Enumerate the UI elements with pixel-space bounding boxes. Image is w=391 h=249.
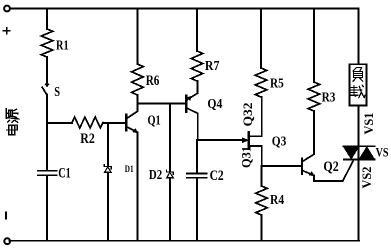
svg-text:Q31: Q31: [239, 146, 253, 168]
svg-text:R5: R5: [270, 77, 284, 92]
svg-text:Q4: Q4: [207, 97, 222, 112]
svg-text:VS2: VS2: [360, 167, 374, 189]
terminal bottom-left: [4, 238, 10, 244]
wire Q4 collector to node B: [197, 113, 199, 140]
wire bottom rail: [10, 240, 360, 242]
wire R6 to Q1 collector node: [136, 95, 138, 111]
wire triac to bottom rail: [358, 159, 360, 240]
svg-text:D2: D2: [149, 167, 162, 182]
load box 负载: [350, 64, 367, 105]
resistor R6: [136, 9, 138, 65]
svg-text:Q1: Q1: [148, 113, 161, 128]
node A wire to R2: [47, 122, 72, 124]
svg-text:Q2: Q2: [323, 159, 338, 175]
wire R4 to bottom rail: [261, 215, 263, 240]
svg-text:R1: R1: [56, 38, 69, 53]
wire Q3 B2 to R5: [261, 97, 263, 136]
capacitor C2: [187, 140, 207, 240]
resistor R1: [46, 9, 48, 30]
wire node C to Q2 base: [262, 165, 302, 167]
wire Q3 B1 to node C: [261, 146, 263, 166]
svg-text:R7: R7: [205, 59, 220, 74]
wire node to Q4 base: [137, 103, 185, 105]
svg-text:C1: C1: [58, 166, 70, 182]
svg-text:C2: C2: [210, 168, 224, 184]
resistor R4: [261, 166, 263, 186]
wire Q2 collector to R3: [313, 111, 315, 154]
wire R2 to Q1 base: [103, 122, 126, 124]
svg-text:R4: R4: [270, 193, 284, 208]
triac VS: [343, 145, 374, 147]
minus label: [5, 213, 7, 219]
wire load to triac: [358, 106, 360, 147]
wire node B to Q3 emitter: [198, 139, 243, 141]
wire switch to node A: [46, 95, 48, 124]
svg-text:Q32: Q32: [241, 103, 255, 127]
svg-text:Q3: Q3: [272, 135, 287, 150]
svg-text:VS1: VS1: [362, 113, 376, 135]
wire R7 to Q4 emitter: [197, 81, 199, 93]
svg-text:R2: R2: [80, 131, 95, 147]
wire Q2 emitter to triac gate: [314, 161, 353, 181]
wire R1 to switch: [46, 57, 48, 85]
svg-text:S: S: [54, 84, 60, 99]
svg-text:VS: VS: [376, 145, 389, 160]
transistor Q4 (PNP): [185, 96, 187, 112]
wire top rail to load: [358, 9, 360, 65]
wire Q1 emitter down: [137, 132, 139, 240]
zener diode D2: [169, 104, 171, 171]
transistor Q1 (NPN): [125, 115, 127, 131]
svg-text:D1: D1: [125, 165, 134, 175]
transistor Q2 (NPN): [301, 159, 303, 175]
resistor R2: [72, 117, 103, 128]
wire top rail: [10, 8, 359, 10]
zener diode D1: [107, 123, 109, 165]
svg-text:R6: R6: [146, 73, 160, 89]
capacitor C1: [38, 123, 57, 240]
switch S: [45, 84, 48, 86]
resistor R5: [260, 9, 262, 69]
transistor Q3 (UJT): [248, 132, 250, 149]
resistor R3: [313, 9, 315, 83]
terminal top-left: [4, 6, 10, 12]
resistor R7: [196, 9, 198, 52]
plus label: [4, 28, 10, 34]
label 电源 (hand-drawn, rotated): [6, 109, 18, 135]
svg-text:R3: R3: [322, 91, 336, 106]
